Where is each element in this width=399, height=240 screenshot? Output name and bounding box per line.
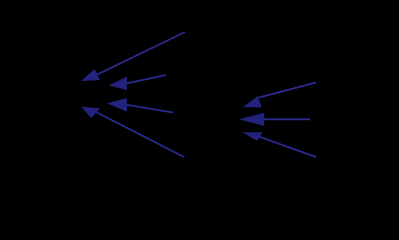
wire L1 shaft: [97, 32, 185, 75]
arrow L4: [82, 107, 184, 157]
arrow L3: [108, 99, 173, 113]
arrow L1: [82, 32, 185, 80]
wire R3 shaft: [260, 137, 317, 157]
arrowhead R1: [244, 97, 261, 107]
arrowhead L1: [82, 70, 99, 81]
arrowhead L2: [110, 77, 126, 89]
arrow L2: [110, 75, 166, 90]
arrowhead R3: [244, 133, 261, 140]
wire R1 shaft: [259, 83, 316, 98]
wire R2 shaft: [264, 118, 310, 120]
wire L3 shaft: [126, 105, 173, 113]
arrowhead L4: [82, 107, 99, 117]
arrow R1: [244, 83, 316, 107]
arrow R3: [244, 133, 316, 157]
arrow R2: [241, 113, 311, 125]
arrowhead R2: [241, 113, 264, 125]
wire L2 shaft: [126, 75, 166, 83]
arrowhead L3: [108, 99, 126, 111]
wire L4 shaft: [96, 112, 184, 157]
